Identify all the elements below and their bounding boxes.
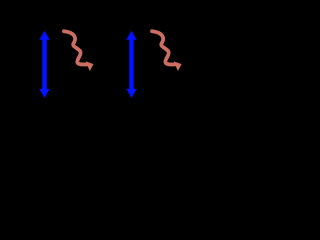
wavy photon arrow (left) [64, 31, 94, 71]
wavy photon arrow (right) [152, 31, 182, 71]
blue double-headed transition arrow (left) [39, 31, 49, 98]
blue double-headed transition arrow (right) [126, 31, 136, 98]
